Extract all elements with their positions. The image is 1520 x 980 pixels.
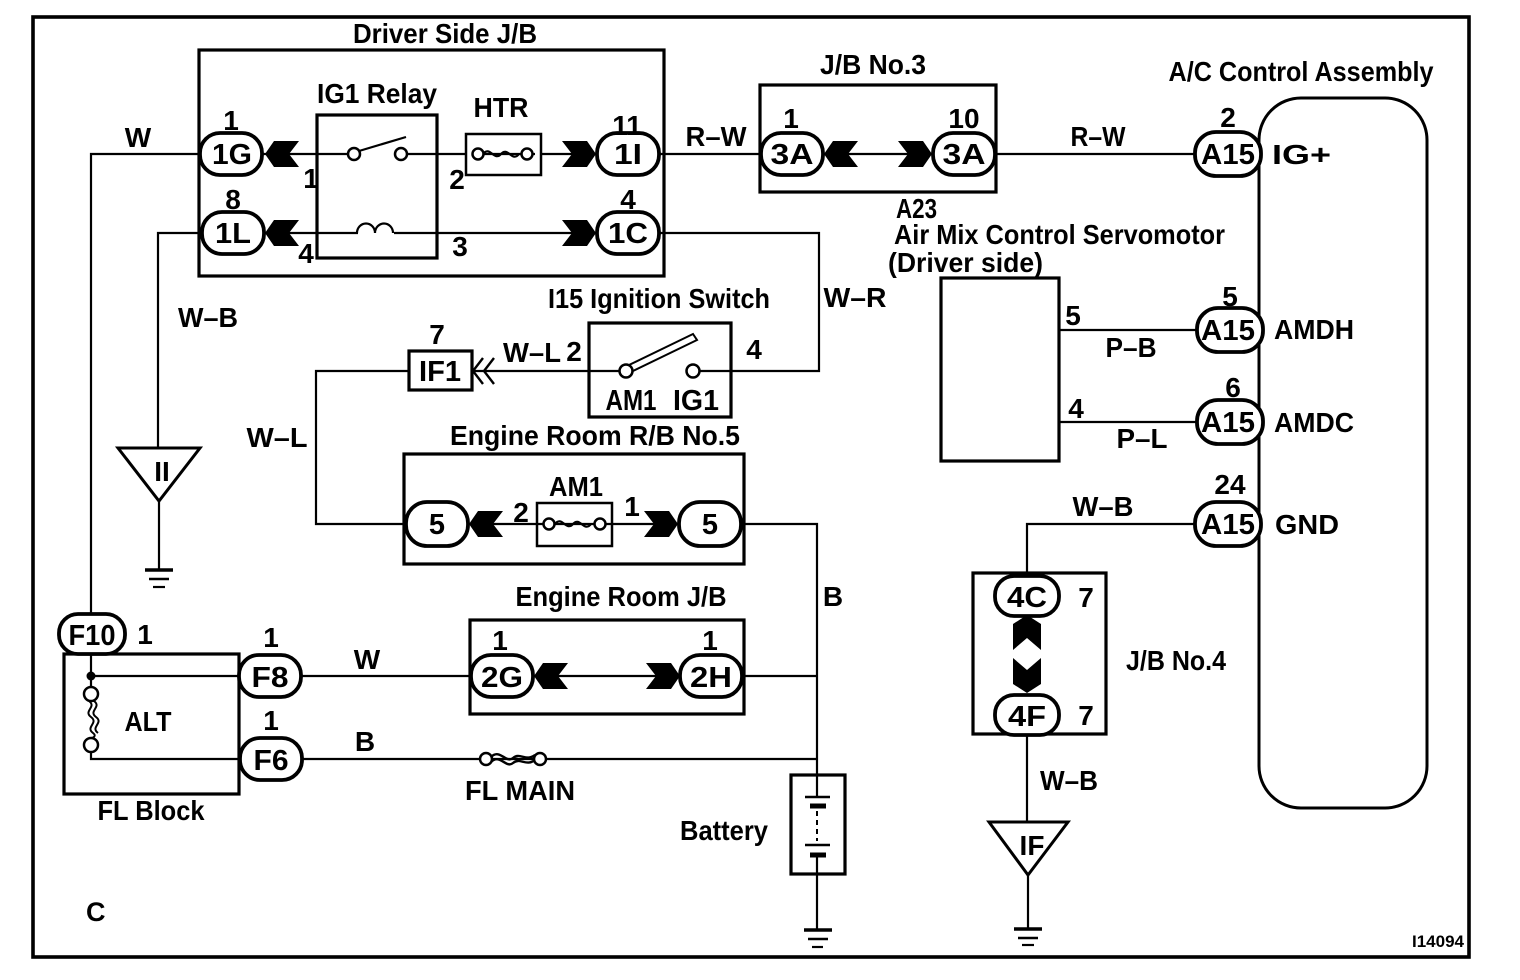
connector 1L [202,212,264,254]
svg-text:IF1: IF1 [419,356,461,388]
svg-text:7: 7 [429,319,445,350]
svg-text:(Driver side): (Driver side) [888,247,1043,278]
wire servo pin5 to A15 [1059,329,1197,331]
svg-text:A15: A15 [1201,407,1255,439]
Engine Room R/B No.5 box [404,420,744,564]
svg-text:W–B: W–B [1073,491,1134,522]
connector A15 pin5 [1197,308,1263,352]
wire across R/B No.5 [468,523,679,525]
svg-text:IG1: IG1 [673,385,719,417]
wire relay to HTR [407,153,466,155]
node junction in FL block [90,654,92,687]
svg-text:1: 1 [137,619,153,650]
svg-text:2: 2 [449,164,465,195]
servomotor A23 box [941,278,1059,461]
svg-text:W–B: W–B [1040,765,1098,796]
svg-text:F8: F8 [252,662,289,694]
wire 1G to relay [262,153,348,155]
svg-text:3A: 3A [771,139,814,171]
wire relay to 1C arrow [437,232,597,234]
wire II to ground [158,501,160,570]
Engine Room J/B box [470,581,744,714]
svg-text:B: B [355,726,375,757]
connector 1C [597,212,659,254]
A/C Control Assembly [1169,56,1434,808]
connector 3A left [761,133,823,175]
svg-text:2G: 2G [481,662,523,694]
wire HTR to 1I [541,153,597,155]
svg-text:Battery: Battery [680,815,768,846]
svg-text:3: 3 [452,231,468,262]
svg-text:4: 4 [1068,393,1084,424]
svg-text:AMDC: AMDC [1274,407,1354,438]
svg-text:W–L: W–L [503,337,561,368]
wire 1L row [158,233,202,448]
svg-text:2: 2 [566,336,582,367]
svg-text:F6: F6 [254,745,289,777]
svg-text:4C: 4C [1007,582,1047,614]
svg-text:W–L: W–L [247,422,308,453]
svg-text:ALT: ALT [125,706,172,737]
wire node to F8 [91,675,245,677]
svg-text:AM1: AM1 [549,471,603,502]
ground under battery [804,930,832,947]
svg-text:J/B No.4: J/B No.4 [1126,645,1226,676]
svg-text:Air Mix Control Servomotor: Air Mix Control Servomotor [894,219,1225,250]
connector 4C [995,576,1059,616]
svg-text:A15: A15 [1201,509,1255,541]
ground under II [145,570,173,587]
svg-text:1: 1 [492,625,508,656]
svg-text:4: 4 [620,184,636,215]
svg-text:HTR: HTR [474,92,529,123]
wire 2H to B node [742,675,817,677]
svg-text:1: 1 [263,622,279,653]
wire W top row [91,154,200,615]
svg-text:8: 8 [225,184,241,215]
ground connector IF triangle [989,822,1068,875]
svg-text:P–L: P–L [1117,423,1168,454]
arrow into 3A left [824,141,858,167]
svg-text:A15: A15 [1201,315,1255,347]
arrow into 1G [265,141,299,167]
wire F8 to 2G [301,675,471,677]
connector 1G [200,133,262,175]
IG1 Relay [317,78,437,258]
ground under IF [1014,929,1042,945]
svg-text:IG1 Relay: IG1 Relay [317,78,437,109]
svg-text:R–W: R–W [686,121,748,152]
wire W-B from A15 GND to 4C [1027,524,1195,576]
wire B from F6 to battery node [302,758,817,760]
svg-text:5: 5 [702,509,718,541]
svg-text:FL Block: FL Block [98,795,205,826]
svg-text:1: 1 [223,105,239,136]
svg-text:II: II [154,456,170,487]
svg-text:2H: 2H [690,662,732,694]
J/B No.4 box [973,573,1226,734]
svg-text:A15: A15 [1201,139,1255,171]
svg-text:24: 24 [1214,469,1246,500]
wire between 3A connectors [823,153,933,155]
connector 2G [471,655,533,697]
svg-text:AMDH: AMDH [1274,314,1354,345]
wire alt to F6 [91,752,240,759]
svg-text:I14094: I14094 [1412,932,1465,951]
svg-text:4: 4 [298,238,314,269]
svg-text:1L: 1L [215,218,251,250]
connector A15 pin2 [1195,132,1261,176]
wire servo pin4 to A15 [1059,421,1197,423]
svg-text:7: 7 [1078,700,1094,731]
connector IF1 [409,351,472,390]
svg-text:4F: 4F [1008,701,1046,733]
svg-text:F10: F10 [69,620,116,652]
double arrow down in J/B No.4 [1013,658,1041,693]
svg-text:5: 5 [1065,300,1081,331]
arrow into 5 left [469,511,503,537]
arrow into 2G [534,663,568,689]
connector 2H [680,655,742,697]
svg-text:11: 11 [612,110,642,141]
alternator ALT winding [84,687,99,752]
connector 4F [995,695,1059,735]
svg-text:W–R: W–R [824,282,887,313]
arrow into 1I [562,141,596,167]
svg-text:Engine Room R/B No.5: Engine Room R/B No.5 [450,420,740,451]
J/B No.3 box [760,49,996,192]
svg-text:Engine Room J/B: Engine Room J/B [516,581,727,612]
svg-text:7: 7 [1078,582,1094,613]
arrow into 1L [265,220,299,246]
connector 1I [597,133,659,175]
svg-text:R–W: R–W [1071,121,1126,152]
svg-text:3A: 3A [943,139,986,171]
wire IF1 to R/B No.5 [316,371,409,524]
fuse AM1 [537,471,612,546]
I15 Ignition Switch [548,283,770,417]
svg-text:IF: IF [1020,830,1045,861]
connector 5 left [406,502,468,546]
connector F10 [59,614,125,654]
arrow into 2H [646,663,680,689]
connector A15 pin24 [1195,502,1261,546]
svg-text:IG+: IG+ [1272,139,1331,170]
svg-text:I15 Ignition Switch: I15 Ignition Switch [548,283,770,314]
svg-text:1: 1 [624,491,640,522]
svg-text:10: 10 [948,103,979,134]
ground connector II triangle [118,448,200,501]
svg-text:1: 1 [702,625,718,656]
battery [680,775,845,874]
svg-text:Driver Side J/B: Driver Side J/B [353,18,537,49]
svg-text:J/B No.3: J/B No.3 [820,49,926,80]
wire W-R from 1C to ignition switch [659,233,819,371]
wire IF to ground [1027,875,1029,929]
wire 3A to A15 IG+ [995,153,1197,155]
FL Block [64,654,239,826]
svg-text:P–B: P–B [1106,332,1157,363]
wire across Engine Room J/B [533,675,680,677]
wire B from 5 right down to battery [741,524,817,775]
connector 5 right [679,502,741,546]
svg-text:5: 5 [1222,281,1238,312]
wire 1L to relay coil [264,232,317,234]
svg-text:4: 4 [746,334,762,365]
svg-text:5: 5 [429,509,445,541]
svg-text:1C: 1C [608,218,648,250]
double arrow up in J/B No.4 [1013,615,1041,650]
Driver Side J/B box [199,18,664,276]
svg-text:FL MAIN: FL MAIN [465,775,575,806]
arrow into 1C [562,220,596,246]
svg-text:1: 1 [303,163,319,194]
svg-text:GND: GND [1275,509,1339,540]
wire ignition to IF1 [472,370,589,372]
fusible link FL MAIN [465,753,575,806]
svg-text:W: W [354,644,381,675]
svg-text:C: C [86,897,106,927]
wire battery to ground [816,874,818,930]
fuse HTR [466,92,541,175]
svg-text:W: W [125,122,152,153]
connector 3A right [933,133,995,175]
junction chevrons at IF1 [473,358,494,384]
arrow into 5 right [644,511,678,537]
connector A15 pin6 [1197,400,1263,444]
svg-text:AM1: AM1 [606,385,657,417]
svg-text:1G: 1G [212,139,252,171]
svg-text:1: 1 [263,705,279,736]
svg-text:A/C Control Assembly: A/C Control Assembly [1169,56,1434,87]
wire 1I to J/B No.3 [659,153,761,155]
svg-text:1: 1 [783,103,799,134]
svg-text:B: B [823,581,843,612]
arrow into 3A right [898,141,932,167]
wire 4F to IF triangle [1026,735,1028,822]
connector F6 [240,738,302,780]
svg-text:2: 2 [1220,102,1236,133]
connector F8 [239,655,301,697]
svg-text:6: 6 [1225,372,1241,403]
svg-text:W–B: W–B [178,302,238,333]
svg-text:1I: 1I [614,139,642,171]
